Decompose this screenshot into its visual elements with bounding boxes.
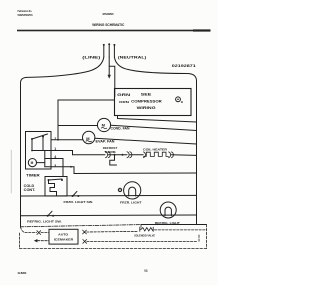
wire pin4 to cold control	[51, 159, 63, 177]
svg-text:ORN: ORN	[119, 100, 130, 104]
capillary tube	[110, 155, 117, 165]
defrost timer box	[26, 132, 52, 170]
svg-text:AUTO: AUTO	[58, 233, 69, 237]
box auto icemaker	[49, 229, 78, 244]
svg-text:M: M	[31, 161, 34, 165]
svg-text:THERM.: THERM.	[104, 150, 116, 154]
svg-text:(NEUTRAL): (NEUTRAL)	[118, 55, 148, 59]
motor evaporator fan	[83, 131, 95, 143]
wire pin1 to defrost row	[51, 151, 73, 155]
switch freezer light	[72, 195, 74, 197]
connector X left	[37, 231, 41, 235]
svg-text:REFRIG. LIGHT SW.: REFRIG. LIGHT SW.	[27, 219, 62, 223]
wire defrost heater row	[73, 154, 106, 156]
header rule	[17, 30, 211, 32]
lamp refrigerator light	[160, 202, 176, 218]
wire icemaker row 2 left with arrow	[34, 239, 38, 242]
publication number text	[18, 9, 33, 17]
svg-text:WIRING: WIRING	[137, 106, 156, 110]
wire dashed boundary right	[206, 225, 208, 249]
wire pin3 row	[51, 167, 197, 174]
svg-text:COIL HEATER: COIL HEATER	[143, 147, 168, 151]
wire icemaker row 1 right	[83, 230, 87, 234]
connector heater left	[143, 152, 145, 158]
cold control box	[45, 177, 67, 197]
cold control contacts	[48, 179, 50, 181]
resistor coil heater	[143, 152, 168, 156]
motor condenser fan	[97, 118, 110, 131]
svg-text:3: 3	[54, 164, 56, 168]
svg-text:COMPRESSOR: COMPRESSOR	[131, 99, 162, 103]
svg-text:WIRING SCHEMATIC: WIRING SCHEMATIC	[92, 23, 125, 27]
svg-text:2: 2	[54, 137, 56, 141]
cold control bellows	[49, 180, 57, 196]
wire green lead inside box	[114, 89, 116, 97]
svg-text:WRS26MW0: WRS26MW0	[103, 12, 114, 16]
wire compressor feed row	[58, 100, 115, 140]
wire condenser fan row	[58, 125, 97, 127]
wire icemaker row 2 right	[83, 240, 87, 244]
svg-text:02192871: 02192871	[172, 64, 196, 68]
timer switch arm	[32, 134, 48, 139]
svg-text:EVAP. FAN: EVAP. FAN	[96, 139, 116, 143]
svg-text:ICEMAKER: ICEMAKER	[54, 237, 74, 241]
motor timer M	[28, 159, 36, 167]
label DEFROST THERM.	[103, 146, 118, 154]
svg-text:TIMER: TIMER	[26, 173, 40, 177]
connector defrost left	[105, 152, 107, 158]
svg-text:(LINE): (LINE)	[82, 55, 101, 59]
svg-text:GMX: GMX	[18, 271, 27, 275]
wire freezer light row	[21, 194, 197, 197]
connector defrost right	[127, 152, 129, 158]
compressor box U1	[115, 89, 192, 116]
svg-text:FRZR. LIGHT SW.: FRZR. LIGHT SW.	[64, 200, 94, 204]
wire dashed boundary bottom	[20, 248, 207, 250]
wire line conductor left	[21, 57, 104, 227]
connector heater right	[169, 152, 171, 158]
svg-text:COLD: COLD	[24, 184, 35, 188]
defrost thermostat	[114, 154, 116, 156]
wire compressor neutral return	[118, 116, 197, 123]
ground wire with arrow	[108, 57, 110, 75]
svg-text:SEE: SEE	[141, 92, 152, 96]
wire dashed boundary left	[19, 233, 21, 249]
svg-text:B: B	[181, 100, 183, 104]
svg-text:FRZR. LIGHT: FRZR. LIGHT	[120, 200, 142, 204]
wire neutral link bottom	[196, 215, 198, 225]
svg-text:COND. FAN: COND. FAN	[111, 127, 131, 131]
wire refrigerator light row	[21, 214, 197, 217]
svg-text:GRN: GRN	[117, 93, 131, 97]
wire icemaker row 1 left	[21, 227, 37, 233]
lamp freezer light	[124, 182, 141, 199]
svg-text:98: 98	[144, 269, 148, 273]
node plug symbol	[118, 188, 121, 191]
grounding symbol B	[176, 97, 183, 104]
ground branch wire to compressor	[109, 66, 115, 88]
solenoid water valve	[140, 227, 153, 231]
wire dash-dot icemaker feed	[21, 225, 142, 227]
svg-text:SOLENOID VALVE: SOLENOID VALVE	[134, 233, 155, 237]
timer internal wires	[31, 139, 33, 151]
switch refrigerator light	[47, 215, 49, 217]
power plug P1	[103, 43, 116, 57]
svg-text:CONT.: CONT.	[24, 188, 36, 192]
wire evaporator fan row	[51, 139, 83, 141]
label COLD CONT.	[24, 184, 36, 192]
node junction evap row	[57, 139, 59, 141]
wire neutral conductor right	[114, 57, 196, 225]
text SEE COMPRESSOR WIRING	[131, 92, 162, 109]
svg-text:5995350253: 5995350253	[18, 13, 33, 17]
